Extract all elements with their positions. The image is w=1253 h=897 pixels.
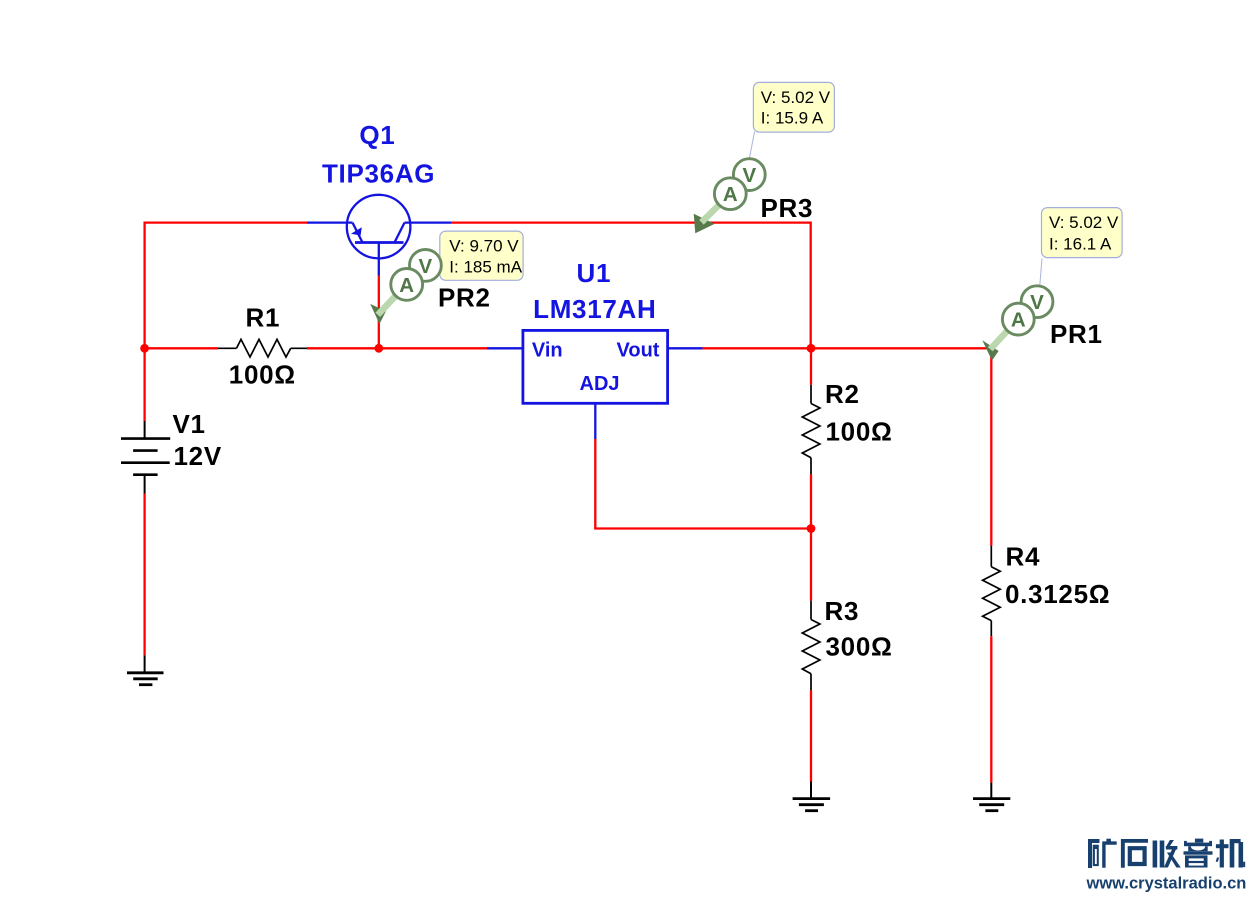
probe PR2 bbox=[370, 250, 441, 325]
node B: junction Q1 base / mid rail bbox=[374, 344, 383, 353]
svg-text:R1: R1 bbox=[246, 303, 281, 333]
ground (R3) bbox=[793, 782, 831, 811]
svg-text:U1: U1 bbox=[576, 258, 611, 288]
wire: R4 bottom to ground bbox=[990, 636, 992, 782]
node C: output node mid rail / R2 bbox=[807, 344, 816, 353]
resistor R1 bbox=[218, 339, 307, 357]
leader line PR1 box to probe bbox=[1040, 258, 1042, 285]
svg-text:V: 5.02 V: V: 5.02 V bbox=[1049, 213, 1119, 232]
resistor R4 bbox=[983, 546, 1001, 637]
svg-text:PR1: PR1 bbox=[1050, 319, 1103, 349]
svg-text:ADJ: ADJ bbox=[580, 373, 620, 395]
logo: crystalradio wordmark 矿石收音机 bbox=[1088, 839, 1245, 868]
svg-text:PR2: PR2 bbox=[438, 283, 491, 313]
svg-text:I: 15.9 A: I: 15.9 A bbox=[761, 109, 824, 128]
wire: output node to R2 top bbox=[810, 348, 812, 385]
wire: right branch down to R4 bbox=[990, 347, 992, 545]
svg-text:A: A bbox=[399, 274, 414, 297]
leader line PR3 box to probe bbox=[749, 132, 754, 159]
svg-text:www.crystalradio.cn: www.crystalradio.cn bbox=[1086, 875, 1247, 893]
measurement box PR3 bbox=[753, 82, 834, 132]
svg-text:V: 9.70 V: V: 9.70 V bbox=[449, 237, 519, 256]
ground (R4) bbox=[973, 783, 1010, 811]
wire: top rail right segment (collector to top-right corner) bbox=[451, 221, 811, 223]
logo char shou bbox=[1153, 840, 1181, 868]
op-amp U1 (LM317AH regulator box) bbox=[487, 347, 523, 349]
svg-text:V: V bbox=[742, 164, 756, 187]
wire: R3 bottom to ground bbox=[810, 690, 812, 781]
wire: ADJ horizontal to node bbox=[594, 527, 811, 529]
svg-text:100Ω: 100Ω bbox=[826, 417, 893, 447]
svg-text:V: 5.02 V: V: 5.02 V bbox=[761, 88, 831, 107]
svg-text:PR3: PR3 bbox=[761, 193, 814, 223]
probe PR1 bbox=[982, 286, 1053, 361]
svg-text:A: A bbox=[1011, 309, 1026, 332]
svg-text:TIP36AG: TIP36AG bbox=[322, 158, 435, 188]
svg-text:0.3125Ω: 0.3125Ω bbox=[1005, 579, 1110, 609]
measurement box PR1 bbox=[1042, 208, 1123, 258]
svg-text:R3: R3 bbox=[825, 596, 860, 626]
wire: mid rail from left node to R1 bbox=[145, 347, 218, 349]
svg-text:12V: 12V bbox=[174, 441, 222, 471]
wire: V1 bottom to ground bbox=[143, 494, 145, 656]
svg-text:100Ω: 100Ω bbox=[229, 359, 296, 389]
node D: ADJ node R2/R3 bbox=[807, 524, 816, 533]
logo char kuang bbox=[1088, 839, 1117, 868]
svg-text:Q1: Q1 bbox=[359, 120, 395, 150]
svg-text:Vout: Vout bbox=[617, 340, 660, 362]
battery V1 bbox=[121, 421, 170, 494]
svg-text:A: A bbox=[723, 183, 738, 206]
wire: left vertical rail from top rail to V1 bbox=[143, 222, 145, 422]
svg-text:Vin: Vin bbox=[532, 340, 563, 362]
resistor R3 bbox=[802, 601, 820, 691]
svg-text:I: 185 mA: I: 185 mA bbox=[449, 257, 522, 276]
wire: R2 bottom to ADJ node bbox=[810, 474, 812, 528]
svg-text:LM317AH: LM317AH bbox=[533, 294, 656, 324]
svg-text:R2: R2 bbox=[825, 379, 860, 409]
probe PR3 bbox=[694, 159, 765, 233]
wire: Q1 base drop red part bbox=[378, 276, 380, 349]
logo char ji bbox=[1216, 839, 1246, 868]
svg-text:R4: R4 bbox=[1006, 542, 1041, 572]
svg-text:V1: V1 bbox=[173, 409, 206, 439]
svg-text:300Ω: 300Ω bbox=[826, 632, 893, 662]
wire: ADJ vertical red part bbox=[594, 439, 596, 529]
ground (V1) bbox=[127, 655, 164, 684]
transistor Q1 bbox=[307, 195, 451, 276]
wire: right drop from top corner to output node bbox=[810, 222, 812, 349]
node A: junction left rail / mid rail bbox=[140, 344, 149, 353]
svg-text:I: 16.1 A: I: 16.1 A bbox=[1049, 235, 1112, 254]
wire: top rail left segment bbox=[144, 221, 308, 223]
wire: ADJ node to R3 top bbox=[810, 529, 812, 601]
logo char shi bbox=[1121, 839, 1148, 868]
logo char yin bbox=[1184, 839, 1213, 868]
resistor R2 bbox=[802, 385, 820, 475]
wire: mid rail R1 to Vin lead bbox=[307, 347, 487, 349]
wire: mid rail Vout lead to PR1 corner bbox=[703, 347, 992, 349]
measurement box PR2 bbox=[440, 231, 523, 280]
